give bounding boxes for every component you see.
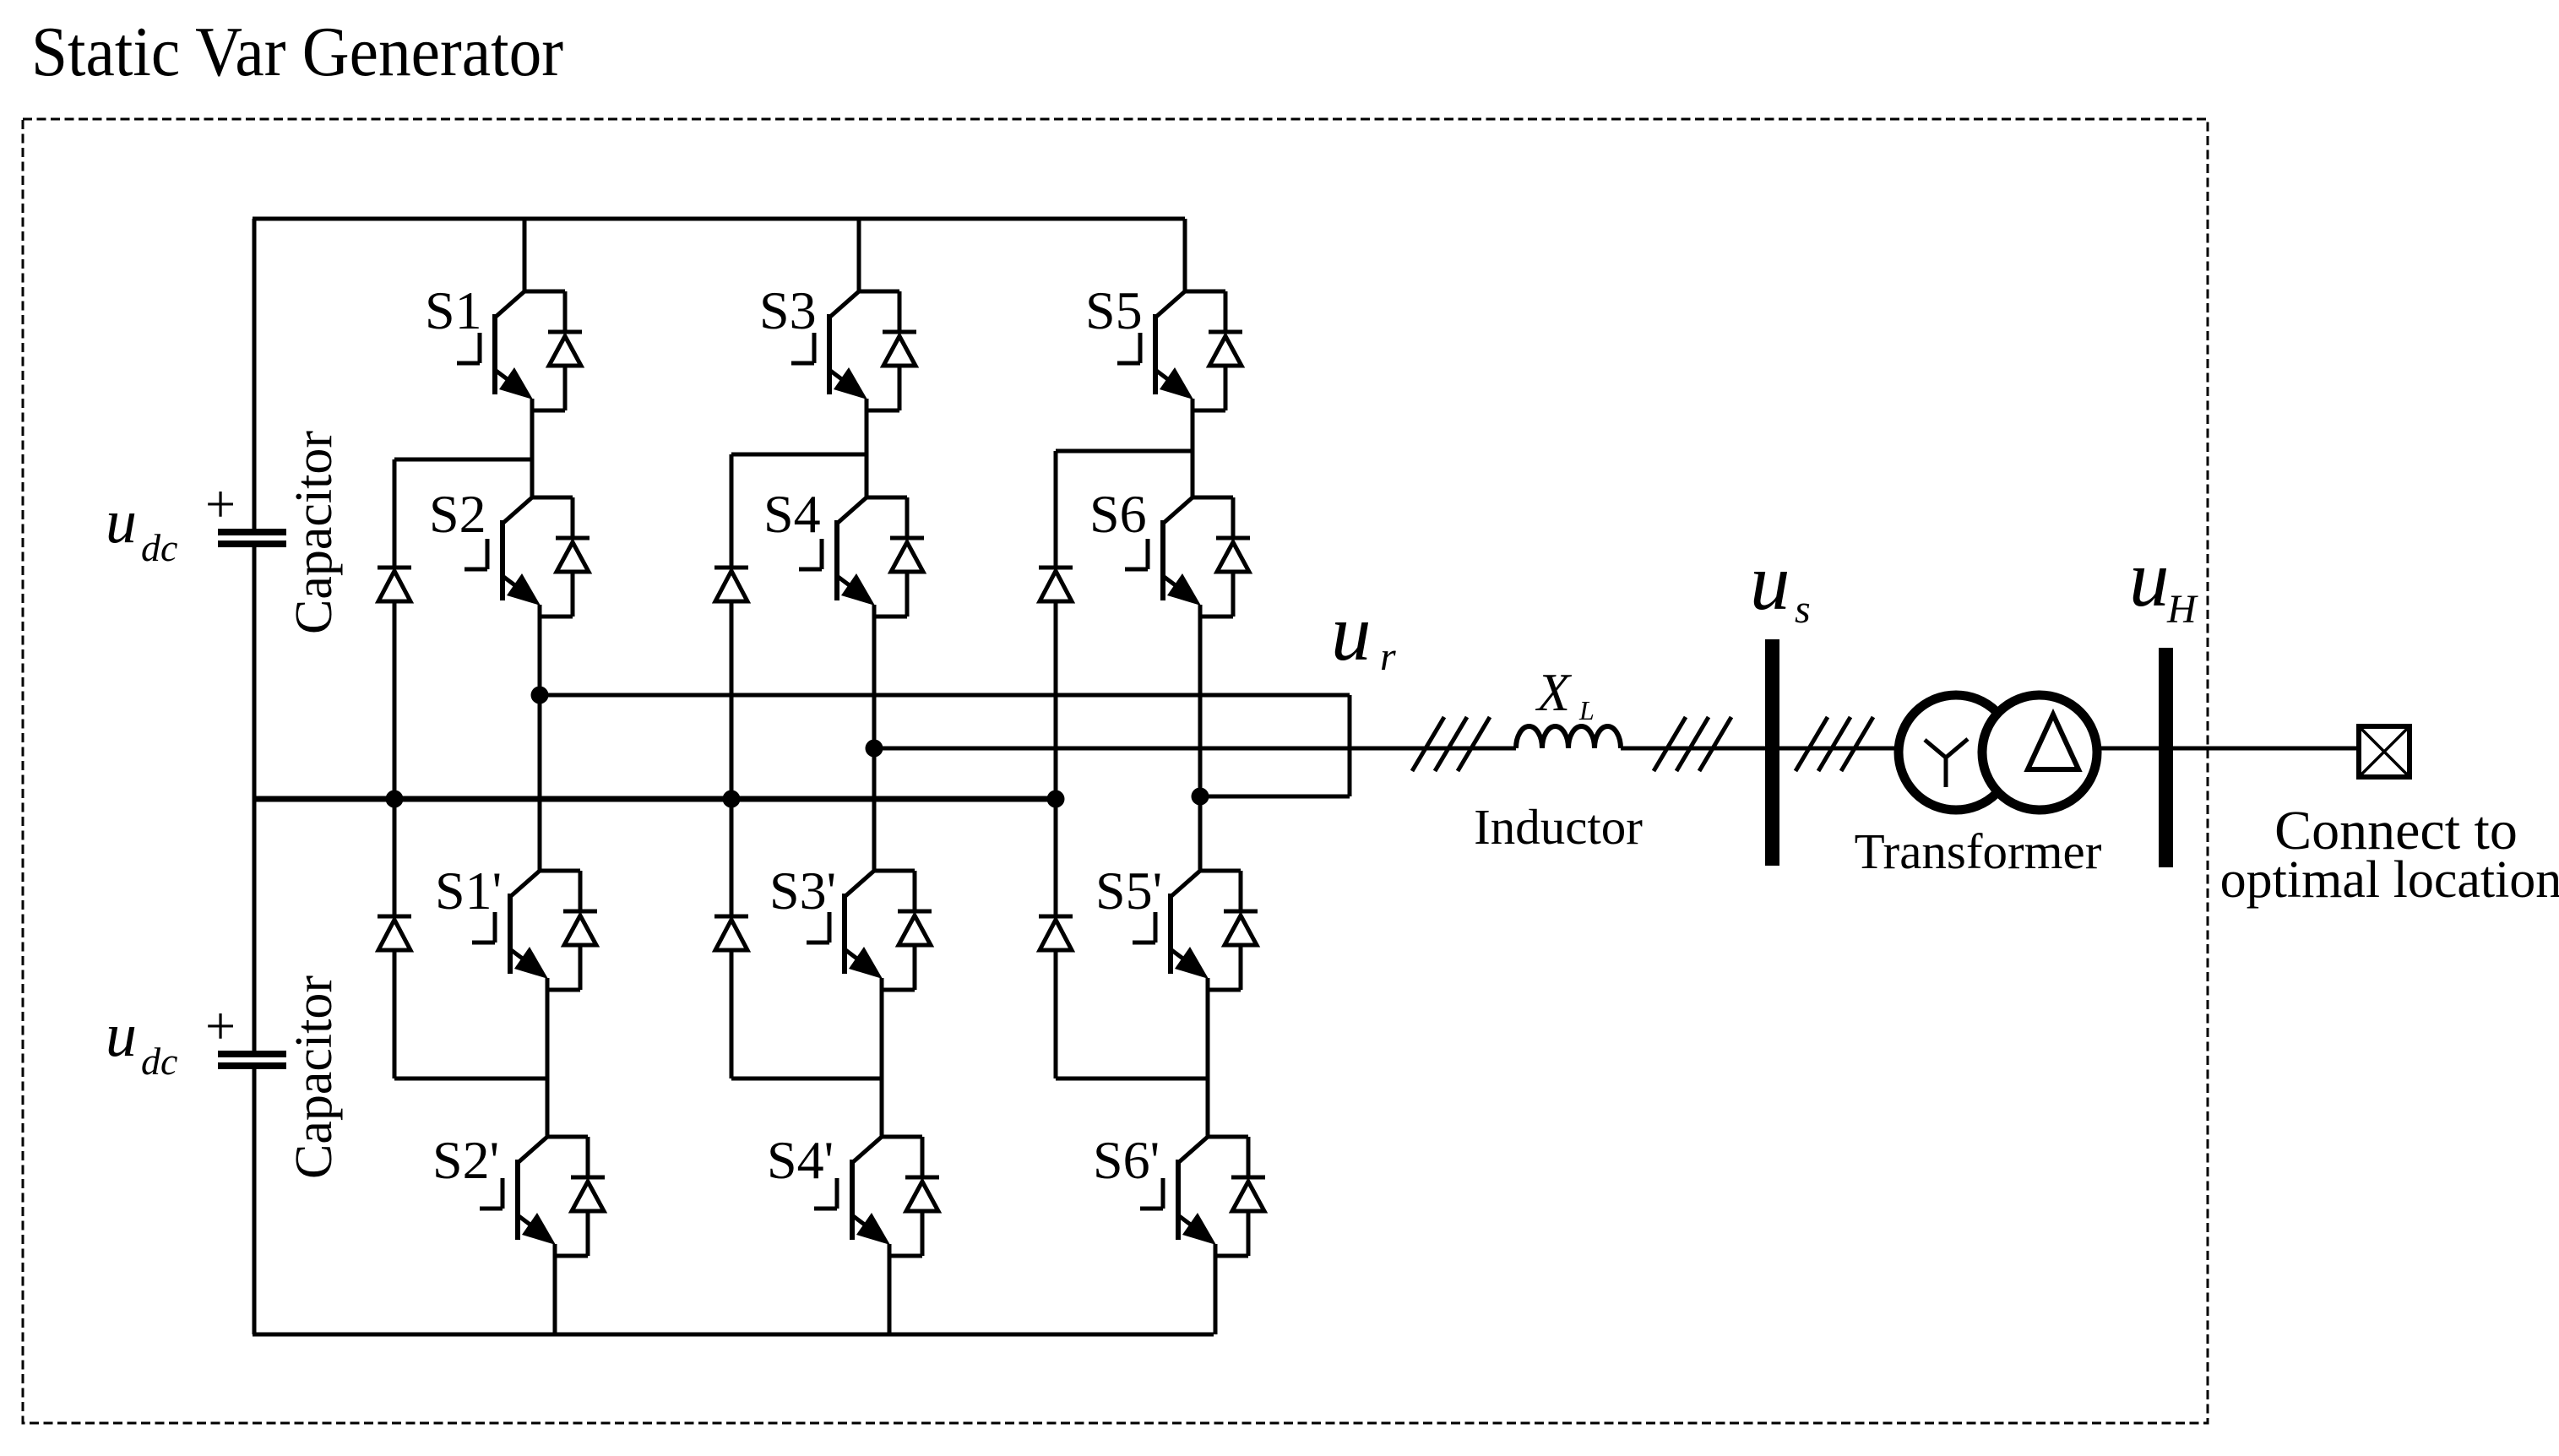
svg-text:X: X — [1535, 662, 1573, 722]
wire upper clamp branch leg C — [1056, 449, 1193, 454]
three-phase slash marks group 1 — [1412, 717, 1490, 771]
svg-text:u: u — [1750, 537, 1790, 627]
wire S1' emitter to S2' collector — [546, 990, 550, 1137]
diode Dc2 (clamp) — [378, 916, 411, 950]
inductor X_L — [1516, 726, 1621, 748]
capacitor C1 (upper DC-link) — [218, 532, 286, 544]
svg-text:u: u — [1331, 588, 1372, 677]
wire lower clamp branch leg C — [1056, 1077, 1208, 1081]
svg-text:S6: S6 — [1089, 484, 1147, 544]
wire collector lead S5 — [1183, 219, 1187, 291]
diode Dc6 (clamp) — [1039, 916, 1073, 950]
dashed enclosure border of Static Var Generator — [23, 119, 2208, 1423]
svg-text:S1': S1' — [435, 861, 502, 921]
svg-text:dc: dc — [141, 526, 177, 569]
transistor S4 (IGBT) — [799, 497, 875, 617]
svg-text:S5': S5' — [1095, 861, 1162, 921]
wire S5' emitter to S6' collector — [1206, 990, 1210, 1137]
wire lower clamp branch leg B — [731, 1077, 882, 1081]
diode Dc5 (clamp) — [1039, 568, 1073, 601]
svg-text:S2: S2 — [429, 484, 486, 544]
wire S3 emitter to S4 collector — [865, 410, 869, 497]
diode DS4' (antiparallel of S4') — [882, 1137, 939, 1256]
wire S2 emitter to output node A — [538, 617, 542, 695]
wire S4 emitter to output node B — [872, 617, 877, 748]
svg-text:H: H — [2166, 587, 2198, 632]
transistor S3 (IGBT) — [791, 291, 867, 410]
bus u_H — [2159, 648, 2173, 867]
diode DS5' (antiparallel of S5') — [1200, 871, 1258, 990]
svg-text:S1: S1 — [425, 280, 482, 340]
Y symbol — [1925, 739, 1968, 787]
svg-text:optimal location: optimal location — [2220, 851, 2559, 909]
diode DS5 (antiparallel of S5) — [1185, 291, 1242, 410]
svg-text:+: + — [205, 474, 236, 534]
wire S6 emitter to output node C — [1198, 617, 1203, 796]
transistor S2' (IGBT) — [480, 1137, 556, 1256]
transformer T1 secondary winding (Delta) — [1982, 695, 2097, 810]
wire node C to S5' collector — [1198, 796, 1203, 871]
wire lower clamp chain leg C — [1054, 950, 1058, 1078]
wire S6' emitter to bottom rail — [1214, 1256, 1218, 1334]
svg-text:S2': S2' — [432, 1130, 499, 1190]
diode DS6' (antiparallel of S6') — [1208, 1137, 1265, 1256]
svg-text:u: u — [2129, 534, 2170, 623]
svg-text:s: s — [1795, 587, 1811, 632]
three-phase slash marks group 3 — [1796, 717, 1873, 771]
diode DS1 (antiparallel of S1) — [524, 291, 582, 410]
Delta symbol — [2028, 714, 2078, 769]
diode DS4 (antiparallel of S4) — [867, 497, 924, 617]
svg-text:dc: dc — [141, 1040, 177, 1083]
node neutral C — [1047, 790, 1065, 808]
wire bottom DC- rail — [253, 1333, 1214, 1337]
diode DS2' (antiparallel of S2') — [547, 1137, 605, 1256]
wire phase A output line (rect top edge) — [540, 693, 1350, 698]
svg-text:r: r — [1380, 634, 1396, 679]
wire neutral to lower clamp diode leg B — [730, 799, 734, 916]
svg-text:S4': S4' — [767, 1130, 834, 1190]
wire left DC rail upper — [253, 219, 257, 529]
svg-text:S4: S4 — [763, 484, 821, 544]
wire S3' emitter to S4' collector — [880, 990, 884, 1137]
node A (phase output) — [531, 687, 549, 704]
wire converter output bundle right edge — [1348, 695, 1352, 796]
wire lower clamp chain leg A — [393, 950, 397, 1078]
wire S4' emitter to bottom rail — [888, 1256, 892, 1334]
node B (phase output) — [866, 740, 883, 758]
transistor S5' (IGBT) — [1133, 871, 1209, 990]
diode DS3' (antiparallel of S3') — [874, 871, 932, 990]
transistor S5 (IGBT) — [1117, 291, 1193, 410]
node neutral B — [723, 790, 741, 808]
wire neutral to lower clamp diode leg A — [393, 799, 397, 916]
transistor S4' (IGBT) — [814, 1137, 890, 1256]
transistor S6 (IGBT) — [1125, 497, 1201, 617]
connect box (crossed square) — [2359, 726, 2410, 777]
diode DS2 (antiparallel of S2) — [532, 497, 589, 617]
wire upper clamp chain leg B — [730, 454, 734, 568]
svg-text:Transformer: Transformer — [1855, 823, 2102, 879]
wire phase B feeder line — [873, 747, 1516, 751]
wire left DC rail middle — [253, 547, 257, 1051]
svg-text:S6': S6' — [1093, 1130, 1160, 1190]
wire phase C output line (rect bottom edge) — [1199, 795, 1350, 799]
node C (phase output) — [1192, 788, 1209, 806]
wire S5 emitter to S6 collector — [1191, 410, 1195, 497]
svg-text:S3': S3' — [769, 861, 836, 921]
svg-text:u: u — [106, 1001, 137, 1070]
wire upper clamp chain leg C — [1054, 451, 1058, 568]
transistor S6' (IGBT) — [1140, 1137, 1216, 1256]
wire collector lead S3 — [857, 219, 861, 291]
svg-text:Static Var Generator: Static Var Generator — [31, 13, 563, 91]
svg-text:S5: S5 — [1085, 280, 1143, 340]
transistor S3' (IGBT) — [807, 871, 883, 990]
svg-text:+: + — [205, 996, 236, 1056]
diode Dc4 (clamp) — [714, 916, 748, 950]
transistor S2 (IGBT) — [465, 497, 541, 617]
wire collector lead S1 — [523, 219, 527, 291]
wire upper clamp chain leg A — [393, 459, 397, 568]
wire S1 emitter to S2 collector — [530, 410, 535, 497]
three-phase slash marks group 2 — [1654, 717, 1731, 771]
svg-text:L: L — [1578, 695, 1595, 725]
diode DS3 (antiparallel of S3) — [859, 291, 916, 410]
wire lower clamp branch leg A — [394, 1077, 547, 1081]
wire upper clamp diode to neutral leg B — [730, 601, 734, 799]
diode DS6 (antiparallel of S6) — [1193, 497, 1250, 617]
diode DS1' (antiparallel of S1') — [540, 871, 597, 990]
svg-text:Capacitor: Capacitor — [285, 975, 343, 1179]
wire upper clamp branch leg B — [731, 453, 867, 457]
wire top DC+ rail — [253, 217, 1185, 221]
wire neutral rail — [254, 796, 1056, 802]
transistor S1' (IGBT) — [472, 871, 548, 990]
wire node A to S1' collector — [538, 695, 542, 871]
svg-text:S3: S3 — [759, 280, 817, 340]
wire upper clamp diode to neutral leg A — [393, 601, 397, 799]
svg-text:Inductor: Inductor — [1474, 799, 1643, 855]
svg-text:Capacitor: Capacitor — [285, 431, 343, 634]
diode Dc3 (clamp) — [714, 568, 748, 601]
diode Dc1 (clamp) — [378, 568, 411, 601]
wire S2' emitter to bottom rail — [553, 1256, 557, 1334]
wire upper clamp diode to neutral leg C — [1054, 601, 1058, 799]
svg-text:u: u — [106, 487, 137, 557]
transistor S1 (IGBT) — [457, 291, 533, 410]
node neutral A — [386, 790, 404, 808]
bus u_s — [1765, 639, 1779, 866]
capacitor C2 (lower DC-link) — [218, 1054, 286, 1066]
wire lower clamp chain leg B — [730, 950, 734, 1078]
wire left DC rail lower — [253, 1069, 257, 1334]
wire feeder inductor to connect box — [1621, 747, 2359, 751]
transformer T1 primary winding (Y) — [1899, 695, 2013, 810]
wire node B to S3' collector — [872, 748, 877, 871]
wire upper clamp branch leg A — [394, 458, 532, 462]
wire neutral to lower clamp diode leg C — [1054, 799, 1058, 916]
